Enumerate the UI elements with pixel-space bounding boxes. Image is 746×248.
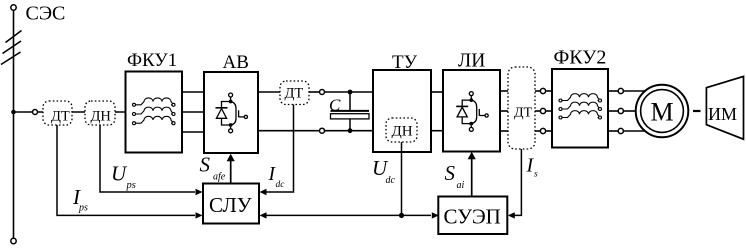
- svg-text:СЛУ: СЛУ: [209, 193, 252, 217]
- block СЛУ (rectifier control): [203, 184, 259, 224]
- svg-text:ДН: ДН: [392, 124, 413, 140]
- block ФКУ1: [126, 50, 183, 153]
- actuator ИМ (fan): [706, 76, 743, 139]
- svg-text:s: s: [534, 170, 538, 180]
- wire: СЭС vertical bus: [13, 10, 15, 238]
- current sensor ДТ2 (dashed): [280, 81, 309, 105]
- junction on U_dc rail: [399, 213, 404, 218]
- node: input terminal circle: [33, 110, 38, 115]
- svg-text:ps: ps: [126, 180, 136, 191]
- wire: ФКУ2 to terminal phase B: [608, 110, 618, 112]
- arrowhead into СУЭП right (I_s): [508, 212, 515, 218]
- node: motor terminal circle phase C: [618, 128, 623, 133]
- wire: terminal to ФКУ2 phase A: [546, 90, 552, 92]
- wire: ФКУ1 to АВ phase B: [182, 111, 204, 113]
- inductor row 1 in ФКУ2: [559, 94, 602, 102]
- junction: capacitor top tap: [348, 90, 353, 95]
- wire: ДТ2 measurement drop (I_dc): [266, 105, 294, 193]
- svg-text:afe: afe: [213, 172, 226, 183]
- node: СЭС terminal (bottom): [11, 238, 16, 243]
- wire: terminal to ДТ1: [38, 111, 44, 113]
- wire: terminal to ФКУ2 phase B: [546, 110, 552, 112]
- inductor row 2 in ФКУ1: [133, 107, 176, 115]
- arrowhead into СЛУ left (U_ps): [196, 189, 203, 195]
- junction: capacitor bottom tap: [348, 128, 353, 133]
- wire: АВ to ДТ2 (DC+ rail): [258, 91, 280, 93]
- wire: ФКУ2 to terminal phase A: [608, 90, 618, 92]
- wire: ДТ1 to ДН1: [72, 111, 85, 113]
- wire: АВ to terminal (DC- rail): [258, 130, 320, 132]
- svg-text:ps: ps: [78, 203, 88, 214]
- wire: СУЭП to АИ gate signal S_ai: [471, 158, 473, 197]
- arrowhead into СЛУ right (I_dc): [260, 189, 267, 195]
- svg-text:М: М: [651, 98, 674, 127]
- wire: АИ to ДТ3 phase B: [500, 110, 508, 112]
- wire: ТУ to АИ (DC+): [431, 91, 443, 93]
- block ФКУ2: [552, 47, 608, 148]
- svg-text:ai: ai: [457, 180, 465, 191]
- inductor row 3 in ФКУ1: [133, 116, 176, 124]
- arrowhead into АВ bottom (S_afe): [227, 154, 235, 161]
- wire: ДН2 measurement drop (U_dc): [401, 142, 403, 215]
- wire: bus to input terminal: [14, 111, 33, 113]
- arrowhead into АИ bottom (S_ai): [468, 152, 476, 159]
- inductor row 2 in ФКУ2: [559, 102, 602, 110]
- arrowhead into СЛУ left (I_ps): [196, 212, 203, 218]
- svg-text:ДТ: ДТ: [514, 106, 533, 121]
- wire: ФКУ1 to АВ phase A: [182, 91, 204, 93]
- block ТУ (braking chopper): [373, 52, 431, 152]
- current sensor ДТ1 (dashed): [43, 101, 72, 125]
- wire: terminal to ТУ (DC-): [325, 130, 374, 132]
- capacitor C: [331, 92, 370, 131]
- inductor row 3 in ФКУ2: [559, 111, 602, 119]
- node: motor terminal circle phase A: [618, 88, 623, 93]
- wire: АИ to ДТ3 phase A: [500, 90, 508, 92]
- svg-text:U: U: [111, 162, 128, 186]
- wire: АИ to ДТ3 phase C: [500, 130, 508, 132]
- shaft coupling (dashed): [693, 110, 701, 112]
- svg-text:ИМ: ИМ: [708, 104, 737, 124]
- wire: СЛУ to АВ gate signal S_afe: [230, 160, 232, 184]
- wire: ТУ to АИ (DC-): [431, 130, 443, 132]
- node: DC+ terminal circle: [320, 90, 325, 95]
- svg-text:S: S: [200, 153, 211, 177]
- svg-text:СЭС: СЭС: [26, 3, 66, 25]
- wire: terminal to motor phase B: [623, 110, 636, 112]
- junction on СЭС bus: [11, 110, 16, 115]
- wire: ФКУ1 to АВ phase C: [182, 131, 204, 133]
- node: DC- terminal circle: [320, 128, 325, 133]
- wire: ДН1 measurement drop (U_ps): [100, 125, 195, 192]
- svg-text:СУЭП: СУЭП: [444, 205, 501, 229]
- svg-text:dc: dc: [386, 175, 396, 186]
- node: terminal circle phase B: [540, 108, 545, 113]
- wire: ДТ2 to terminal: [309, 91, 320, 93]
- wire: terminal to motor phase C: [623, 130, 645, 132]
- svg-text:ДТ: ДТ: [51, 109, 70, 125]
- voltage sensor ДН1 (dashed): [85, 101, 115, 125]
- wire: ДН1 to ФКУ1: [115, 111, 126, 113]
- wire: U_dc rail to СУЭП: [402, 214, 432, 216]
- svg-text:ФКУ1: ФКУ1: [127, 50, 177, 71]
- wire: U_dc rail to СЛУ: [266, 214, 402, 216]
- block СУЭП (drive control): [438, 197, 507, 235]
- wire: ДТ3 measurement drop (I_s): [514, 149, 521, 215]
- svg-text:С: С: [329, 96, 341, 115]
- block АВ (active rectifier): [204, 52, 258, 153]
- svg-text:ЛИ: ЛИ: [458, 51, 485, 72]
- IGBT symbol U2 inside АИ: [456, 92, 488, 132]
- wire: ДТ3 to terminal phase B: [535, 110, 540, 112]
- wire: ДТ1 measurement drop (I_ps): [57, 125, 195, 215]
- wire: terminal to motor phase A: [623, 90, 645, 92]
- voltage sensor ДН2 (dashed, inside ТУ): [386, 118, 417, 142]
- svg-text:ДН: ДН: [91, 109, 112, 125]
- svg-text:dc: dc: [276, 180, 286, 190]
- svg-text:АВ: АВ: [223, 52, 249, 73]
- wire: ДТ3 to terminal phase A: [535, 90, 540, 92]
- svg-text:ФКУ2: ФКУ2: [554, 47, 607, 69]
- arrowhead into СЛУ right (U_dc): [260, 212, 267, 218]
- node: terminal circle phase C: [540, 128, 545, 133]
- node: СЭС supply terminal (top): [11, 5, 16, 10]
- current sensor ДТ3 (dashed, tall): [508, 67, 535, 149]
- IGBT symbol U1 inside АВ: [216, 93, 248, 133]
- svg-text:ДТ: ДТ: [285, 86, 304, 102]
- svg-text:ТУ: ТУ: [392, 52, 418, 73]
- block ЛИ (inverter): [443, 51, 500, 152]
- node: terminal circle phase A: [540, 88, 545, 93]
- arrowhead into СУЭП left (U_dc): [432, 212, 439, 218]
- node: motor terminal circle phase B: [618, 108, 623, 113]
- wire: terminal to ТУ (DC+): [325, 91, 374, 93]
- motor М: [636, 85, 689, 138]
- svg-text:S: S: [445, 161, 456, 185]
- wire: ДТ3 to terminal phase C: [535, 130, 540, 132]
- wire: terminal to ФКУ2 phase C: [546, 130, 552, 132]
- three-phase slash marks on СЭС bus: [1, 31, 22, 65]
- wire: ФКУ2 to terminal phase C: [608, 130, 618, 132]
- inductor row 1 in ФКУ1: [133, 98, 176, 106]
